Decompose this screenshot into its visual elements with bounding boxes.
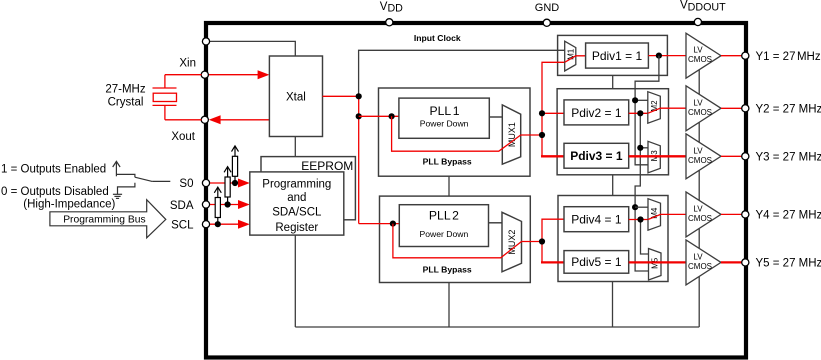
junction dot Pdiv2 out <box>637 110 643 116</box>
wire Pdiv4 chain to M5 top <box>641 220 649 255</box>
svg-text:SCL: SCL <box>171 219 194 231</box>
pin S0 <box>202 179 209 186</box>
svg-text:LV: LV <box>693 98 703 107</box>
wire Pdiv2 out (red) <box>629 112 648 114</box>
svg-text:Pdiv1 = 1: Pdiv1 = 1 <box>592 49 643 63</box>
svg-text:Register: Register <box>275 222 318 234</box>
wire Pdiv5 out through M5 (red thick) <box>629 261 686 263</box>
svg-text:Y1 = 27MHz: Y1 = 27MHz <box>756 51 821 63</box>
box Xtal <box>269 56 322 137</box>
svg-text:LV: LV <box>693 204 703 213</box>
svg-text:VDDOUT: VDDOUT <box>680 0 726 14</box>
svg-text:PLL Bypass: PLL Bypass <box>423 157 472 167</box>
wire Xtal out (red) <box>323 95 359 97</box>
wire branch to M4 top <box>635 206 648 208</box>
wire Y5 out (red) <box>721 261 742 263</box>
box PLL2 bypass outer <box>380 196 531 282</box>
box PLL1 bypass outer <box>379 88 531 176</box>
wire Programming register to bottom control bus <box>294 235 296 327</box>
wire Pdiv2 group to Pdiv4 group control <box>612 175 614 196</box>
junction dot Pdiv1 out <box>656 53 662 59</box>
wire Pdiv4 out (red) <box>629 219 648 221</box>
arrowhead into Xout <box>209 115 221 124</box>
svg-text:LV: LV <box>693 146 703 155</box>
junction dot SDA <box>225 201 231 207</box>
pin VDDOUT <box>694 18 701 25</box>
svg-text:CMOS: CMOS <box>688 262 712 271</box>
wire Y3 out (red) <box>721 155 742 157</box>
wire Pdiv3 feed (red thick) <box>541 155 564 157</box>
svg-text:Y3 = 27 MHz: Y3 = 27 MHz <box>756 152 821 164</box>
svg-text:PLL1: PLL1 <box>430 104 460 118</box>
mux M5 <box>649 249 662 281</box>
svg-text:Pdiv3 = 1: Pdiv3 = 1 <box>570 149 623 163</box>
wire PLL1 to MUX1 <box>489 116 502 118</box>
wire Pdiv1 clock chain to M2 M3 <box>635 56 659 165</box>
svg-text:Crystal: Crystal <box>108 96 144 108</box>
svg-text:PLL2: PLL2 <box>429 209 459 223</box>
junction dot MUX1 out <box>539 132 545 138</box>
wire Pdiv3 out through M3 (red thick) <box>629 155 686 157</box>
junction dot Pdiv4 out <box>637 216 643 222</box>
wire Xtal to Xout (red) <box>219 119 269 121</box>
pin SDA <box>202 201 209 208</box>
wire red bus PLL2 clock <box>542 219 564 262</box>
wire MUX1 out (red) <box>521 134 542 136</box>
svg-text:VDD: VDD <box>380 1 403 15</box>
arrowhead into Xtal <box>258 70 270 79</box>
ground <box>113 194 122 198</box>
wire Y2 out (red) <box>721 107 742 109</box>
svg-text:MUX1: MUX1 <box>507 122 517 147</box>
junction dot M2 top feed <box>632 97 638 103</box>
wire PLL1 input (red) <box>359 115 399 117</box>
wire PLL2 box to control bus <box>448 283 450 328</box>
wire Pdiv2 feed (red) <box>542 112 564 114</box>
pin Xout <box>201 116 208 123</box>
buffer Y4 LVCMOS <box>686 192 721 237</box>
wire branch to M3 top <box>640 147 648 149</box>
svg-text:Programming Bus: Programming Bus <box>63 214 145 225</box>
svg-text:Xtal: Xtal <box>286 91 306 103</box>
arrowhead S0 into register <box>238 179 250 188</box>
svg-text:GND: GND <box>535 2 560 14</box>
wire M1 diag (red) <box>565 56 586 63</box>
wire PLL1 box to PLL2 box control <box>448 176 450 196</box>
svg-text:0 = Outputs Disabled: 0 = Outputs Disabled <box>1 186 109 198</box>
svg-text:27-MHz: 27-MHz <box>105 83 146 95</box>
pin Y5 <box>742 259 749 266</box>
wire Y1 out (red) <box>721 55 742 57</box>
svg-text:Pdiv2 = 1: Pdiv2 = 1 <box>571 106 622 120</box>
wire SCL (red) <box>210 223 239 225</box>
wire M2 diag out (red) <box>648 108 686 113</box>
wire Xin to Xtal (red) <box>209 74 259 76</box>
box Pdiv3 <box>564 143 629 168</box>
wire internal input clock to M1 <box>359 50 565 96</box>
resistor pull-up SCL <box>214 187 221 224</box>
wire SDA (red) <box>210 204 239 206</box>
svg-text:PLL Bypass: PLL Bypass <box>423 264 472 274</box>
pin Xin <box>201 71 208 78</box>
pin input clock node on left border <box>202 38 209 45</box>
junction dot M4 top feed <box>632 204 638 210</box>
wire M4 diag out (red) <box>648 214 686 219</box>
pin VDD <box>386 19 393 26</box>
mux M1 <box>565 41 576 71</box>
svg-text:CMOS: CMOS <box>688 214 712 223</box>
crystal 27-MHz <box>153 75 202 120</box>
svg-text:Y4 = 27 MHz: Y4 = 27 MHz <box>756 210 821 222</box>
box Pdiv5 <box>564 251 629 274</box>
mux MUX2 <box>502 212 522 271</box>
pin SCL <box>202 221 209 228</box>
svg-text:Xin: Xin <box>179 58 196 70</box>
resistor pull-up S0 <box>232 146 239 183</box>
wire Pdiv4 group to control bus <box>612 282 614 328</box>
junction dot PLL2 input <box>390 221 396 227</box>
resistor pull-up SDA <box>224 167 231 205</box>
box Pdiv4 Pdiv5 group <box>558 196 668 282</box>
svg-text:CMOS: CMOS <box>688 108 712 117</box>
wire MUX2 out (red) <box>522 241 543 243</box>
box Pdiv2 <box>564 100 629 125</box>
svg-text:EEPROM: EEPROM <box>301 159 353 173</box>
svg-text:Power Down: Power Down <box>420 229 469 239</box>
wire bottom control bus <box>295 326 699 328</box>
wire red bus Xtal node down to PLL2 row <box>358 96 360 223</box>
wire branch to M2 top <box>635 99 648 101</box>
svg-text:Pdiv5 = 1: Pdiv5 = 1 <box>571 255 622 269</box>
buffer Y3 LVCMOS <box>686 134 721 179</box>
junction dot Xtal out node <box>356 93 362 99</box>
wire Pdiv1 group to Pdiv2 group control <box>612 75 614 88</box>
box Pdiv4 <box>564 207 629 232</box>
wire red bus PLL1 clock <box>542 62 565 156</box>
svg-text:(High-Impedance): (High-Impedance) <box>23 199 115 211</box>
buffer Y5 LVCMOS <box>686 240 721 285</box>
svg-text:CMOS: CMOS <box>688 55 712 64</box>
junction dot PLL1 row node <box>356 113 362 119</box>
svg-text:Xout: Xout <box>171 131 195 143</box>
pin Y2 <box>742 105 749 112</box>
buffer Y2 LVCMOS <box>686 86 721 131</box>
svg-text:Y2 = 27 MHz: Y2 = 27 MHz <box>756 104 821 116</box>
box Programming and SDA/SCL Register <box>250 172 344 235</box>
svg-text:SDA: SDA <box>170 200 194 212</box>
svg-text:Pdiv4 = 1: Pdiv4 = 1 <box>571 213 622 227</box>
pin Y3 <box>742 153 749 160</box>
box PLL1 <box>399 98 489 138</box>
wire Xtal bottom to EEPROM <box>294 137 296 157</box>
svg-text:Input Clock: Input Clock <box>414 33 461 43</box>
mux MUX1 <box>502 105 520 164</box>
wire PLL2 input (red) <box>359 223 400 225</box>
buffer Y1 LVCMOS <box>686 33 721 78</box>
svg-text:SDA/SCL: SDA/SCL <box>272 207 322 219</box>
svg-text:MUX2: MUX2 <box>507 230 517 255</box>
svg-text:LV: LV <box>693 46 703 55</box>
wire Pdiv5 feed (red thick) <box>541 261 564 263</box>
box EEPROM <box>261 157 355 220</box>
wire input clock pin to Xtal top <box>206 41 295 56</box>
arrow logic high <box>113 161 120 176</box>
mux M3 <box>648 141 660 173</box>
output enable wire (register to output buffers, behind triangles) <box>698 70 700 327</box>
switch low contact <box>118 183 135 194</box>
junction dot SCL <box>215 221 221 227</box>
svg-text:Power Down: Power Down <box>420 118 469 128</box>
junction dot MUX2 out <box>539 238 545 244</box>
mux M2 <box>648 92 661 124</box>
mux M4 <box>648 199 661 231</box>
junction dot PLL1 input <box>389 113 395 119</box>
svg-text:S0: S0 <box>179 178 193 190</box>
svg-text:Programming: Programming <box>262 178 331 190</box>
junction dot Pdiv2 feed <box>539 110 545 116</box>
wire Y4 out (red) <box>721 213 742 215</box>
wire PLL2 to MUX2 <box>489 222 503 224</box>
junction dot M3 top feed <box>637 145 643 151</box>
svg-text:and: and <box>287 192 306 204</box>
wire S0 (red) <box>210 182 239 184</box>
arrowhead SDA into register <box>238 200 250 209</box>
pin GND <box>543 19 550 26</box>
arrowhead SCL into register <box>238 220 250 229</box>
pin Y1 <box>742 52 749 59</box>
svg-text:Y5 = 27 MHz: Y5 = 27 MHz <box>756 258 821 270</box>
switch S0 select <box>116 174 170 181</box>
svg-text:LV: LV <box>693 252 703 261</box>
wire Pdiv1 out (red) <box>648 55 686 57</box>
box Pdiv1 <box>586 43 649 68</box>
wire PLL1 bypass (red) <box>392 116 521 151</box>
junction dot S0 <box>232 180 238 186</box>
block arrow Programming Bus <box>50 200 166 238</box>
svg-text:CMOS: CMOS <box>688 156 712 165</box>
chip boundary <box>206 23 746 358</box>
box Pdiv2 Pdiv3 group <box>557 89 668 175</box>
pin Y4 <box>742 211 749 218</box>
svg-text:1 = Outputs Enabled: 1 = Outputs Enabled <box>1 163 106 175</box>
wire Pdiv2 clock chain to M3 M4 M5 <box>635 113 648 271</box>
box Pdiv1 group <box>558 35 668 75</box>
box PLL2 <box>399 205 488 247</box>
wire PLL2 bypass (red) <box>393 224 522 258</box>
